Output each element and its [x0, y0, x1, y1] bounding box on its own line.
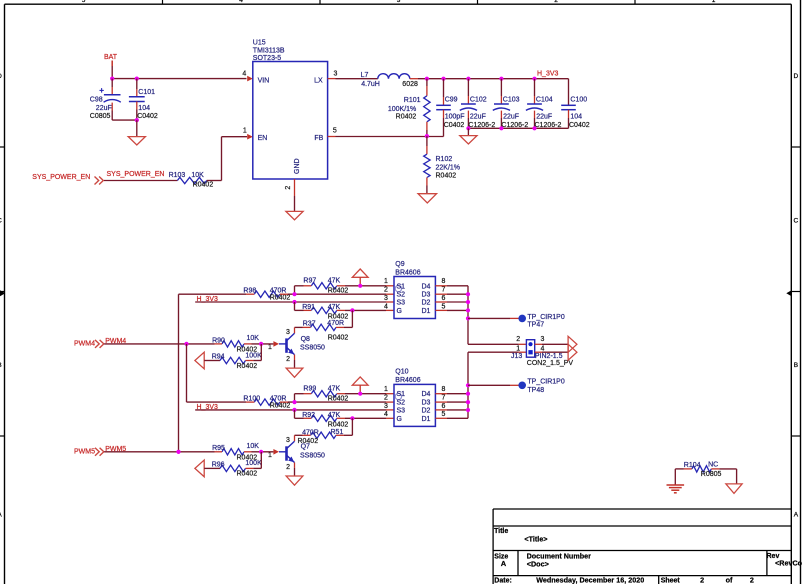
wire test point TP47 stub [468, 317, 519, 319]
connector J13 CON2_1.5_PV [511, 336, 573, 367]
svg-text:R0402: R0402 [436, 173, 457, 180]
transistor Q7 SS8050 [268, 437, 325, 471]
resistor R91 47K [302, 304, 348, 321]
svg-text:A: A [501, 559, 507, 568]
svg-text:22uF: 22uF [96, 105, 112, 112]
ground below C101 [128, 137, 145, 145]
node L7 R101 [425, 77, 429, 81]
svg-text:L7: L7 [361, 72, 369, 79]
svg-text:D: D [794, 73, 799, 80]
wire R91 leads [295, 302, 395, 310]
resistor R102 22K/1% [424, 136, 460, 194]
off-page connector SYS_POWER_EN [32, 174, 103, 185]
wire R37 leads [295, 327, 353, 333]
wire to ground [467, 128, 469, 135]
node pin3 junction [292, 408, 296, 412]
wire H_3V3 to pin3 [195, 301, 386, 303]
transistor Q8 SS8050 [268, 329, 325, 363]
svg-text:D3: D3 [421, 292, 430, 299]
svg-text:1: 1 [516, 346, 520, 353]
earth ground symbol [667, 485, 685, 493]
pin 1 EN arrow [247, 134, 253, 140]
svg-text:Q8: Q8 [301, 336, 310, 343]
ground below C102 [460, 136, 477, 144]
svg-text:H_3V3: H_3V3 [537, 71, 559, 78]
ground below U15 [286, 211, 303, 219]
wire arrow to R94 [204, 360, 220, 362]
svg-text:R94: R94 [212, 354, 225, 361]
off-page connector PIN2-1.5 top [568, 336, 577, 352]
node BAT junction C98 [110, 77, 114, 81]
node C104 top [532, 77, 536, 81]
svg-text:LX: LX [314, 78, 323, 85]
capacitor C99 100pF [436, 79, 464, 130]
resistor R94 100K [212, 352, 262, 370]
wire gate link down [351, 310, 353, 327]
svg-text:104: 104 [570, 114, 582, 121]
svg-text:C103: C103 [503, 97, 520, 104]
svg-text:Q10: Q10 [395, 369, 408, 376]
wire to ground [136, 120, 138, 137]
svg-text:D4: D4 [421, 391, 430, 398]
wire C98 C101 bottoms [112, 119, 137, 121]
resistor R99 47K [303, 386, 348, 403]
svg-text:R0805: R0805 [701, 471, 722, 478]
svg-text:TP47: TP47 [527, 321, 544, 328]
capacitor C102 22uF [460, 79, 496, 130]
resistor R95 10K [212, 443, 259, 461]
node pin3 junction [292, 300, 296, 304]
svg-text:C0402: C0402 [137, 113, 158, 120]
ground right of R104 [726, 484, 742, 494]
node PWM5 branch [176, 450, 180, 454]
pin 1 base arrow [273, 341, 279, 347]
transistor Q9 BR4606 [384, 261, 447, 319]
resistor R90 10K [212, 335, 259, 353]
svg-text:22K/1%: 22K/1% [436, 164, 461, 171]
svg-text:CON2_1.5_PV: CON2_1.5_PV [527, 360, 574, 367]
node base junction [259, 450, 263, 454]
svg-text:R99: R99 [303, 386, 316, 393]
resistor R96 100K [212, 460, 262, 478]
node pin2 junction [292, 400, 296, 404]
svg-text:10K: 10K [247, 443, 260, 450]
svg-text:SYS_POWER_EN: SYS_POWER_EN [107, 171, 165, 178]
svg-text:SS8050: SS8050 [300, 345, 325, 352]
resistor R103 10K R0402 [169, 172, 214, 188]
wire LX to L7 [336, 78, 378, 80]
resistor R92 47K [302, 412, 348, 429]
svg-text:C: C [0, 218, 2, 225]
wire drain bus [447, 394, 468, 419]
off-page connector PIN2-1.5 bottom [568, 344, 577, 360]
svg-text:4: 4 [384, 303, 388, 310]
ground below Q7 [286, 476, 303, 485]
svg-text:3: 3 [384, 295, 388, 302]
svg-text:R104: R104 [684, 462, 701, 469]
node C103 bottom [499, 126, 503, 130]
wire PWM5 [104, 451, 214, 453]
title block [493, 509, 802, 584]
wire R104 left to earth [675, 469, 692, 485]
resistor R98 470R [243, 288, 290, 302]
off-page connector PWM4 [74, 340, 104, 348]
svg-text:3: 3 [397, 0, 401, 4]
svg-text:R95: R95 [212, 445, 225, 452]
svg-text:4: 4 [239, 0, 243, 4]
wire R103 to EN [207, 137, 247, 181]
svg-text:3: 3 [384, 403, 388, 410]
op-amp U15 TMI3113B regulator [242, 40, 337, 196]
svg-text:2: 2 [384, 287, 388, 294]
node C101 ground junction [135, 118, 139, 122]
resistor R104 NC R0805 [684, 462, 722, 478]
svg-text:D2: D2 [421, 407, 430, 414]
wire pin1 [386, 393, 394, 395]
svg-text:S1: S1 [397, 283, 406, 290]
power symbol BAT [104, 54, 118, 66]
svg-text:10K: 10K [247, 335, 260, 342]
svg-text:C98: C98 [90, 96, 103, 103]
svg-text:R0402: R0402 [328, 422, 349, 429]
svg-text:1: 1 [384, 278, 388, 285]
wire drain bus [447, 286, 468, 311]
resistor R101 100K/1% [388, 79, 430, 136]
svg-text:D2: D2 [421, 300, 430, 307]
node BAT junction C101 [135, 77, 139, 81]
svg-text:3: 3 [286, 329, 290, 336]
svg-text:22uF: 22uF [536, 114, 552, 121]
svg-text:7: 7 [441, 395, 445, 402]
svg-text:Date:: Date: [494, 577, 512, 584]
svg-text:EN: EN [258, 135, 268, 142]
node pin4 junction [350, 416, 354, 420]
svg-text:100K: 100K [245, 460, 262, 467]
test point TP47 [518, 314, 564, 328]
svg-text:of: of [726, 575, 733, 584]
svg-text:BR4606: BR4606 [395, 269, 420, 276]
svg-text:SOT23-5: SOT23-5 [253, 55, 282, 62]
svg-text:A: A [794, 512, 799, 519]
svg-text:5: 5 [441, 411, 445, 418]
svg-text:G: G [397, 308, 402, 315]
svg-text:6: 6 [441, 295, 445, 302]
svg-text:B: B [0, 362, 2, 369]
svg-text:S2: S2 [397, 292, 406, 299]
svg-text:4.7uH: 4.7uH [361, 81, 380, 88]
capacitor C98 [90, 79, 121, 121]
power symbol H_3V3 above R97 [352, 269, 368, 286]
wire FB net [336, 118, 444, 137]
svg-text:8: 8 [441, 386, 445, 393]
wire R92 leads [295, 410, 395, 418]
svg-text:S2: S2 [397, 400, 406, 407]
power symbol H_3V3 above R99 [352, 377, 368, 394]
wire R97 leads [295, 286, 387, 294]
svg-text:+: + [99, 86, 104, 95]
inductor L7 4.7uH 6028 [361, 72, 418, 88]
svg-text:R102: R102 [436, 156, 453, 163]
svg-text:R0402: R0402 [396, 113, 417, 120]
svg-text:1: 1 [243, 127, 247, 134]
svg-text:470R: 470R [327, 320, 344, 327]
wire Q9 bus to J13 pin2 [468, 343, 526, 345]
wire cross-couple PWM4 to R100 [187, 344, 247, 402]
wire pin1 [386, 285, 394, 287]
pin 1 base arrow [273, 449, 279, 455]
svg-text:47K: 47K [328, 386, 341, 393]
svg-text:TP_CIR1P0: TP_CIR1P0 [527, 314, 564, 321]
svg-text:U15: U15 [253, 40, 266, 47]
svg-text:100K/1%: 100K/1% [388, 106, 416, 113]
svg-text:R0402: R0402 [237, 471, 258, 478]
svg-text:100pF: 100pF [445, 114, 465, 121]
svg-text:C99: C99 [445, 97, 458, 104]
svg-text:6028: 6028 [402, 81, 418, 88]
svg-text:C104: C104 [536, 97, 553, 104]
svg-text:C0805: C0805 [90, 113, 111, 120]
wire emitter to ground [294, 468, 296, 476]
wire R100 to pin2 [246, 401, 394, 403]
svg-text:7: 7 [441, 287, 445, 294]
resistor R37 470R [303, 320, 349, 341]
wire J13 pin3 [542, 343, 568, 345]
svg-text:BR4606: BR4606 [395, 377, 420, 384]
svg-text:3: 3 [333, 71, 337, 78]
svg-text:C102: C102 [470, 97, 487, 104]
svg-text:47K: 47K [328, 278, 341, 285]
svg-text:6: 6 [441, 403, 445, 410]
svg-text:C100: C100 [570, 97, 587, 104]
svg-text:2: 2 [554, 0, 558, 4]
wire H_3V3 to pin3 [195, 409, 386, 411]
wire R96 up to base [246, 452, 262, 469]
svg-text:4: 4 [384, 411, 388, 418]
svg-text:R97: R97 [303, 278, 316, 285]
node pin4 junction [350, 308, 354, 312]
wire arrow to R96 [204, 467, 220, 469]
svg-text:100K: 100K [245, 352, 262, 359]
wire J13 pin4 [542, 351, 568, 353]
svg-text:Title: Title [494, 528, 508, 535]
svg-text:Sheet: Sheet [661, 577, 681, 584]
ground below Q8 [286, 368, 303, 377]
svg-text:Wednesday, December 16, 2020: Wednesday, December 16, 2020 [536, 576, 644, 584]
wire Q9 output bus [467, 286, 469, 345]
node C104 bottom [532, 126, 536, 130]
svg-text:D1: D1 [421, 416, 430, 423]
svg-text:4: 4 [242, 71, 246, 78]
capacitor C101 [129, 79, 158, 121]
wire capacitor ground bus [468, 127, 568, 129]
ground below R102 [418, 194, 437, 203]
wire R95 to base [244, 451, 273, 453]
wire H_3V3 output bus [418, 79, 569, 106]
svg-text:B: B [794, 362, 798, 369]
svg-text:D3: D3 [421, 400, 430, 407]
wire R90 to base [244, 343, 273, 345]
svg-text:R0402: R0402 [237, 363, 258, 370]
svg-text:C0402: C0402 [569, 122, 590, 129]
svg-text:3: 3 [286, 437, 290, 444]
svg-text:PWM5: PWM5 [74, 448, 95, 455]
svg-text:5: 5 [441, 303, 445, 310]
off-page connector PWM5 [74, 448, 104, 456]
svg-text:VIN: VIN [258, 78, 270, 85]
svg-text:2: 2 [700, 575, 704, 584]
svg-text:R90: R90 [212, 337, 225, 344]
svg-text:TP48: TP48 [527, 387, 544, 394]
svg-text:2: 2 [286, 356, 290, 363]
node C99 top [441, 77, 445, 81]
svg-text:1: 1 [268, 452, 272, 459]
node C102 top [466, 77, 470, 81]
svg-text:TP_CIR1P0: TP_CIR1P0 [527, 378, 564, 385]
wire R104 right to ground [711, 469, 736, 484]
transistor Q10 BR4606 [384, 369, 447, 427]
power symbol arrow left of R96 [195, 460, 204, 477]
node FB R101 R102 [425, 134, 429, 138]
svg-text:D: D [0, 73, 2, 80]
node Q10 bus pins [466, 383, 470, 387]
resistor R100 470R [243, 396, 290, 410]
svg-text:C: C [794, 218, 799, 225]
capacitor C103 22uF [493, 79, 529, 130]
node power stub pin1 [358, 392, 362, 396]
resistor R51 470R [297, 429, 343, 445]
pin 4 VIN arrow [247, 76, 253, 82]
wire SYS_POWER_EN to R103 [104, 180, 177, 182]
svg-text:PIN2-1.5: PIN2-1.5 [535, 353, 563, 360]
svg-text:R37: R37 [303, 320, 316, 327]
svg-text:D4: D4 [421, 283, 430, 290]
svg-text:2: 2 [516, 336, 520, 343]
svg-text:R0402: R0402 [328, 334, 349, 341]
svg-text:5: 5 [82, 0, 86, 4]
svg-text:2: 2 [384, 395, 388, 402]
svg-text:<Doc>: <Doc> [527, 559, 549, 568]
svg-text:NC: NC [708, 462, 718, 469]
svg-text:10K: 10K [191, 172, 204, 179]
svg-text:8: 8 [441, 278, 445, 285]
svg-text:C0402: C0402 [444, 122, 465, 129]
svg-text:G: G [397, 416, 402, 423]
node Q9 bus pins [466, 292, 470, 296]
wire cross-couple R98 to PWM5 [179, 294, 247, 452]
node power stub pin1 [358, 284, 362, 288]
node base junction [259, 342, 263, 346]
svg-text:2: 2 [285, 186, 292, 190]
node C102 bottom [466, 126, 470, 130]
wire emitter to ground [294, 360, 296, 368]
svg-text:Q9: Q9 [395, 261, 404, 268]
capacitor C100 104 [561, 97, 590, 130]
svg-text:Q7: Q7 [301, 444, 310, 451]
svg-text:2: 2 [750, 575, 754, 584]
node PWM4 branch [184, 342, 188, 346]
wire R99 leads [295, 394, 387, 402]
svg-text:1: 1 [268, 344, 272, 351]
svg-text:J13: J13 [511, 353, 522, 360]
wire GND pin [294, 196, 296, 211]
svg-text:S3: S3 [397, 407, 406, 414]
svg-text:BAT: BAT [104, 54, 118, 61]
svg-text:22uF: 22uF [503, 114, 519, 121]
power symbol arrow left of R94 [195, 352, 204, 369]
wire R98 to pin2 [246, 293, 394, 295]
node pin2 junction [292, 292, 296, 296]
svg-text:R0402: R0402 [193, 182, 214, 189]
svg-text:R101: R101 [404, 97, 421, 104]
svg-text:104: 104 [138, 105, 150, 112]
resistor R97 47K [303, 278, 348, 295]
svg-text:3: 3 [541, 336, 545, 343]
wire gate link down [351, 418, 353, 435]
wire BAT to VIN [112, 66, 246, 79]
svg-text:C101: C101 [138, 89, 155, 96]
svg-text:TMI3113B: TMI3113B [253, 47, 285, 54]
svg-text:R0402: R0402 [270, 294, 291, 301]
svg-text:22uF: 22uF [470, 114, 486, 121]
svg-text:1: 1 [384, 386, 388, 393]
svg-text:SYS_POWER_EN: SYS_POWER_EN [32, 174, 90, 181]
test point TP48 [518, 378, 564, 394]
svg-text:S3: S3 [397, 300, 406, 307]
wire PWM4 [104, 343, 214, 345]
node C103 top [499, 77, 503, 81]
svg-text:R103: R103 [169, 172, 186, 179]
svg-text:FB: FB [314, 135, 323, 142]
svg-text:<RevCode>: <RevCode> [775, 559, 802, 568]
svg-text:PWM4: PWM4 [74, 341, 95, 348]
wire R94 up to base [246, 344, 262, 361]
svg-text:1: 1 [712, 0, 716, 4]
svg-text:<Title>: <Title> [524, 534, 547, 543]
svg-text:SS8050: SS8050 [300, 453, 325, 460]
svg-text:2: 2 [286, 464, 290, 471]
svg-text:R96: R96 [212, 461, 225, 468]
svg-text:5: 5 [333, 127, 337, 134]
svg-text:D1: D1 [421, 308, 430, 315]
wire test point TP48 stub [468, 384, 519, 386]
svg-text:GND: GND [294, 158, 301, 174]
wire J13 pin1 link [468, 351, 526, 353]
svg-text:S1: S1 [397, 391, 406, 398]
capacitor C104 22uF [526, 79, 562, 130]
wire R51 leads [295, 435, 353, 441]
node PWM5 junction [176, 450, 180, 454]
wire Q10 output bus [467, 352, 469, 418]
svg-text:R0402: R0402 [270, 402, 291, 409]
